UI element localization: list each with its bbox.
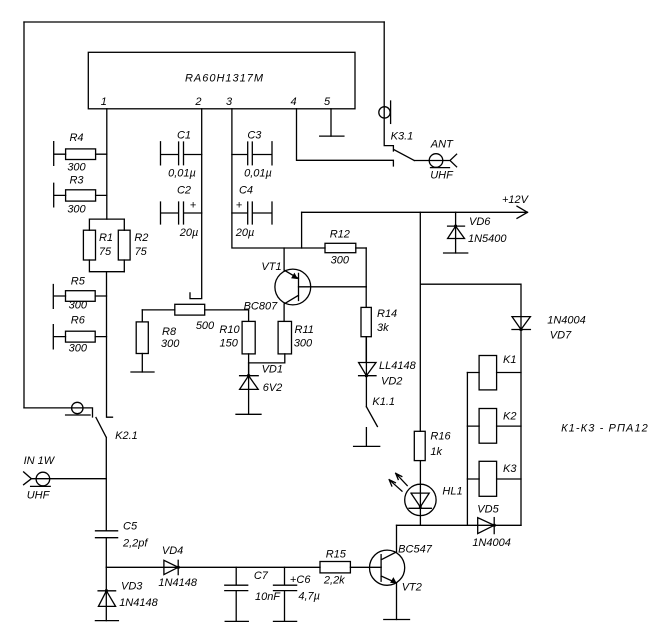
+12V rail xyxy=(302,194,530,218)
diode VD6 1N5400 xyxy=(448,212,508,253)
svg-text:HL1: HL1 xyxy=(442,485,462,497)
svg-text:300: 300 xyxy=(67,203,86,215)
svg-text:C1: C1 xyxy=(177,130,191,142)
svg-text:300: 300 xyxy=(331,254,350,266)
svg-text:2: 2 xyxy=(194,96,201,108)
resistor R12 xyxy=(325,228,366,266)
svg-text:R3: R3 xyxy=(69,175,84,187)
svg-text:3k: 3k xyxy=(377,322,389,334)
svg-text:4,7µ: 4,7µ xyxy=(298,591,320,603)
relay coil K3 xyxy=(467,461,521,496)
svg-text:K3: K3 xyxy=(503,463,517,475)
svg-text:R12: R12 xyxy=(330,228,350,240)
svg-text:20µ: 20µ xyxy=(235,227,255,239)
svg-text:+12V: +12V xyxy=(502,194,530,206)
svg-text:6V2: 6V2 xyxy=(263,382,283,394)
svg-text:+: + xyxy=(236,200,243,212)
wire bottom relay line xyxy=(397,524,522,526)
resistor R4 xyxy=(54,132,107,173)
svg-text:VT1: VT1 xyxy=(261,261,281,273)
capacitor C5 xyxy=(96,479,149,568)
svg-text:300: 300 xyxy=(161,338,180,350)
svg-text:1N4004: 1N4004 xyxy=(472,537,511,549)
svg-text:LL4148: LL4148 xyxy=(379,360,417,372)
wire pin3 bus xyxy=(232,109,325,248)
relay contact circle K2.1 xyxy=(66,402,91,415)
svg-text:C2: C2 xyxy=(177,185,191,197)
svg-text:500: 500 xyxy=(196,320,215,332)
resistor R11 xyxy=(249,321,314,363)
wire pin4 to K3.1 NC contact xyxy=(297,109,394,166)
svg-text:+C6: +C6 xyxy=(290,574,311,586)
ground VD1 xyxy=(236,413,261,415)
svg-text:VD5: VD5 xyxy=(477,503,499,515)
svg-text:VD3: VD3 xyxy=(121,581,143,593)
resistor R16 xyxy=(414,431,451,461)
svg-text:R8: R8 xyxy=(162,326,177,338)
ground VD6 xyxy=(444,252,468,254)
connector IN 1W xyxy=(24,455,107,501)
svg-text:VD1: VD1 xyxy=(262,364,283,376)
capacitor C1 xyxy=(161,130,202,180)
wire R12 to base node xyxy=(365,248,367,287)
ground R8 xyxy=(131,371,154,373)
svg-text:75: 75 xyxy=(135,246,148,258)
resistor R1 xyxy=(83,219,124,272)
svg-text:300: 300 xyxy=(294,338,313,350)
pin 5 xyxy=(324,96,331,108)
wire +12V riser xyxy=(301,212,303,248)
resistor 500 trimmer xyxy=(142,304,248,332)
svg-text:1N4148: 1N4148 xyxy=(119,597,158,609)
relay coil K2 xyxy=(467,409,521,444)
svg-text:К1-К3 - РПА12: К1-К3 - РПА12 xyxy=(561,423,649,435)
svg-text:10nF: 10nF xyxy=(255,591,281,603)
resistor R14 xyxy=(361,287,397,363)
svg-text:1N5400: 1N5400 xyxy=(468,233,507,245)
svg-text:20µ: 20µ xyxy=(179,227,199,239)
svg-text:300: 300 xyxy=(67,162,86,174)
resistor R8 xyxy=(136,310,180,372)
svg-text:UHF: UHF xyxy=(27,490,51,502)
ground C7 xyxy=(225,620,248,622)
svg-text:75: 75 xyxy=(99,246,112,258)
diode VD4 1N4148 xyxy=(106,545,320,589)
svg-text:5: 5 xyxy=(324,96,331,108)
capacitor C7 xyxy=(225,567,282,621)
svg-text:0,01µ: 0,01µ xyxy=(168,168,196,180)
svg-text:C7: C7 xyxy=(254,570,269,582)
pin 2 xyxy=(194,96,201,108)
svg-text:1: 1 xyxy=(101,96,107,108)
svg-text:3: 3 xyxy=(226,96,233,108)
svg-text:C4: C4 xyxy=(239,185,253,197)
svg-text:1k: 1k xyxy=(430,446,442,458)
resistor R15 xyxy=(320,548,381,586)
svg-text:R6: R6 xyxy=(71,315,86,327)
transistor VT2 BC547 xyxy=(370,525,433,619)
capacitor C4 xyxy=(232,185,272,240)
ground VD3 xyxy=(95,620,118,622)
capacitor C3 xyxy=(232,130,272,180)
svg-text:R14: R14 xyxy=(377,308,397,320)
svg-text:IN 1W: IN 1W xyxy=(24,455,56,467)
svg-text:300: 300 xyxy=(69,300,88,312)
svg-text:R10: R10 xyxy=(219,324,240,336)
wire relay feed xyxy=(420,212,521,525)
svg-text:150: 150 xyxy=(220,338,239,350)
svg-text:R1: R1 xyxy=(99,232,113,244)
svg-text:K1.1: K1.1 xyxy=(372,396,395,408)
svg-text:R11: R11 xyxy=(295,324,314,336)
relay contact circle K3.1 xyxy=(379,101,391,123)
svg-text:2,2k: 2,2k xyxy=(323,575,345,587)
diode VD2 LL4148 xyxy=(359,337,417,407)
ground K1.1 xyxy=(354,445,380,447)
svg-text:4: 4 xyxy=(290,96,296,108)
ground pin5 xyxy=(320,135,344,137)
diode VD7 1N4004 xyxy=(512,314,586,341)
transistor VT1 BC807 xyxy=(244,248,311,321)
svg-text:R4: R4 xyxy=(69,132,83,144)
svg-text:C5: C5 xyxy=(123,521,138,533)
svg-text:+: + xyxy=(190,200,197,212)
wire left rail xyxy=(23,22,25,408)
svg-text:0,01µ: 0,01µ xyxy=(244,168,272,180)
svg-text:K1: K1 xyxy=(503,354,516,366)
switch K2.1 xyxy=(24,408,138,479)
diode VD5 1N4004 xyxy=(472,503,511,549)
svg-text:C3: C3 xyxy=(247,130,262,142)
svg-text:VD4: VD4 xyxy=(162,545,183,557)
resistor R10 xyxy=(219,310,255,376)
wire R1R2 to K2.1 xyxy=(107,272,113,418)
wire top loop xyxy=(24,21,384,23)
svg-text:R2: R2 xyxy=(134,232,148,244)
pin 3 xyxy=(226,96,233,108)
svg-text:R16: R16 xyxy=(430,431,451,443)
svg-text:300: 300 xyxy=(69,343,88,355)
wire pin2 bus xyxy=(190,109,202,299)
svg-text:R5: R5 xyxy=(71,275,86,287)
capacitor C2 xyxy=(161,185,202,240)
svg-text:R15: R15 xyxy=(326,548,347,560)
svg-text:BC547: BC547 xyxy=(398,543,433,555)
ground C6 xyxy=(274,620,297,622)
relay coil K1 xyxy=(467,354,521,390)
LED HL1 xyxy=(389,461,462,526)
svg-text:1N4148: 1N4148 xyxy=(158,577,197,589)
svg-text:ANT: ANT xyxy=(430,139,454,151)
wire pin5 to ground xyxy=(330,109,332,136)
capacitor C6 xyxy=(274,567,321,621)
svg-text:2,2pf: 2,2pf xyxy=(122,538,148,550)
note K1-K3 type xyxy=(561,423,649,435)
resistor R3 xyxy=(54,175,107,216)
ground VT2 xyxy=(384,619,410,621)
connector ANT xyxy=(414,139,456,182)
amplifier module U1 RA60H1317M xyxy=(88,52,355,109)
wire VT1 base xyxy=(299,286,367,288)
diode VD3 1N4148 xyxy=(98,567,159,620)
wire pin1 bus xyxy=(106,109,108,219)
svg-text:K2.1: K2.1 xyxy=(115,430,138,442)
zener VD1 6V2 xyxy=(240,363,283,414)
pin 1 xyxy=(101,96,107,108)
wire K3.1 feed xyxy=(384,22,393,151)
pin 4 xyxy=(290,96,296,108)
svg-text:K3.1: K3.1 xyxy=(391,131,414,143)
svg-text:VT2: VT2 xyxy=(402,581,422,593)
svg-text:1N4004: 1N4004 xyxy=(547,314,586,326)
switch K3.1 arm xyxy=(394,150,414,161)
resistor R5 xyxy=(53,275,106,311)
svg-text:VD6: VD6 xyxy=(469,216,491,228)
switch K1.1 xyxy=(366,396,395,446)
svg-text:RA60H1317M: RA60H1317M xyxy=(185,73,264,85)
resistor R6 xyxy=(53,315,106,355)
node K3.1 label xyxy=(391,131,414,143)
resistor R2 xyxy=(118,219,148,272)
wire relay left bus xyxy=(466,373,468,526)
svg-text:VD2: VD2 xyxy=(381,375,402,387)
svg-text:VD7: VD7 xyxy=(550,329,572,341)
svg-text:K2: K2 xyxy=(503,410,516,422)
svg-text:UHF: UHF xyxy=(430,170,454,182)
